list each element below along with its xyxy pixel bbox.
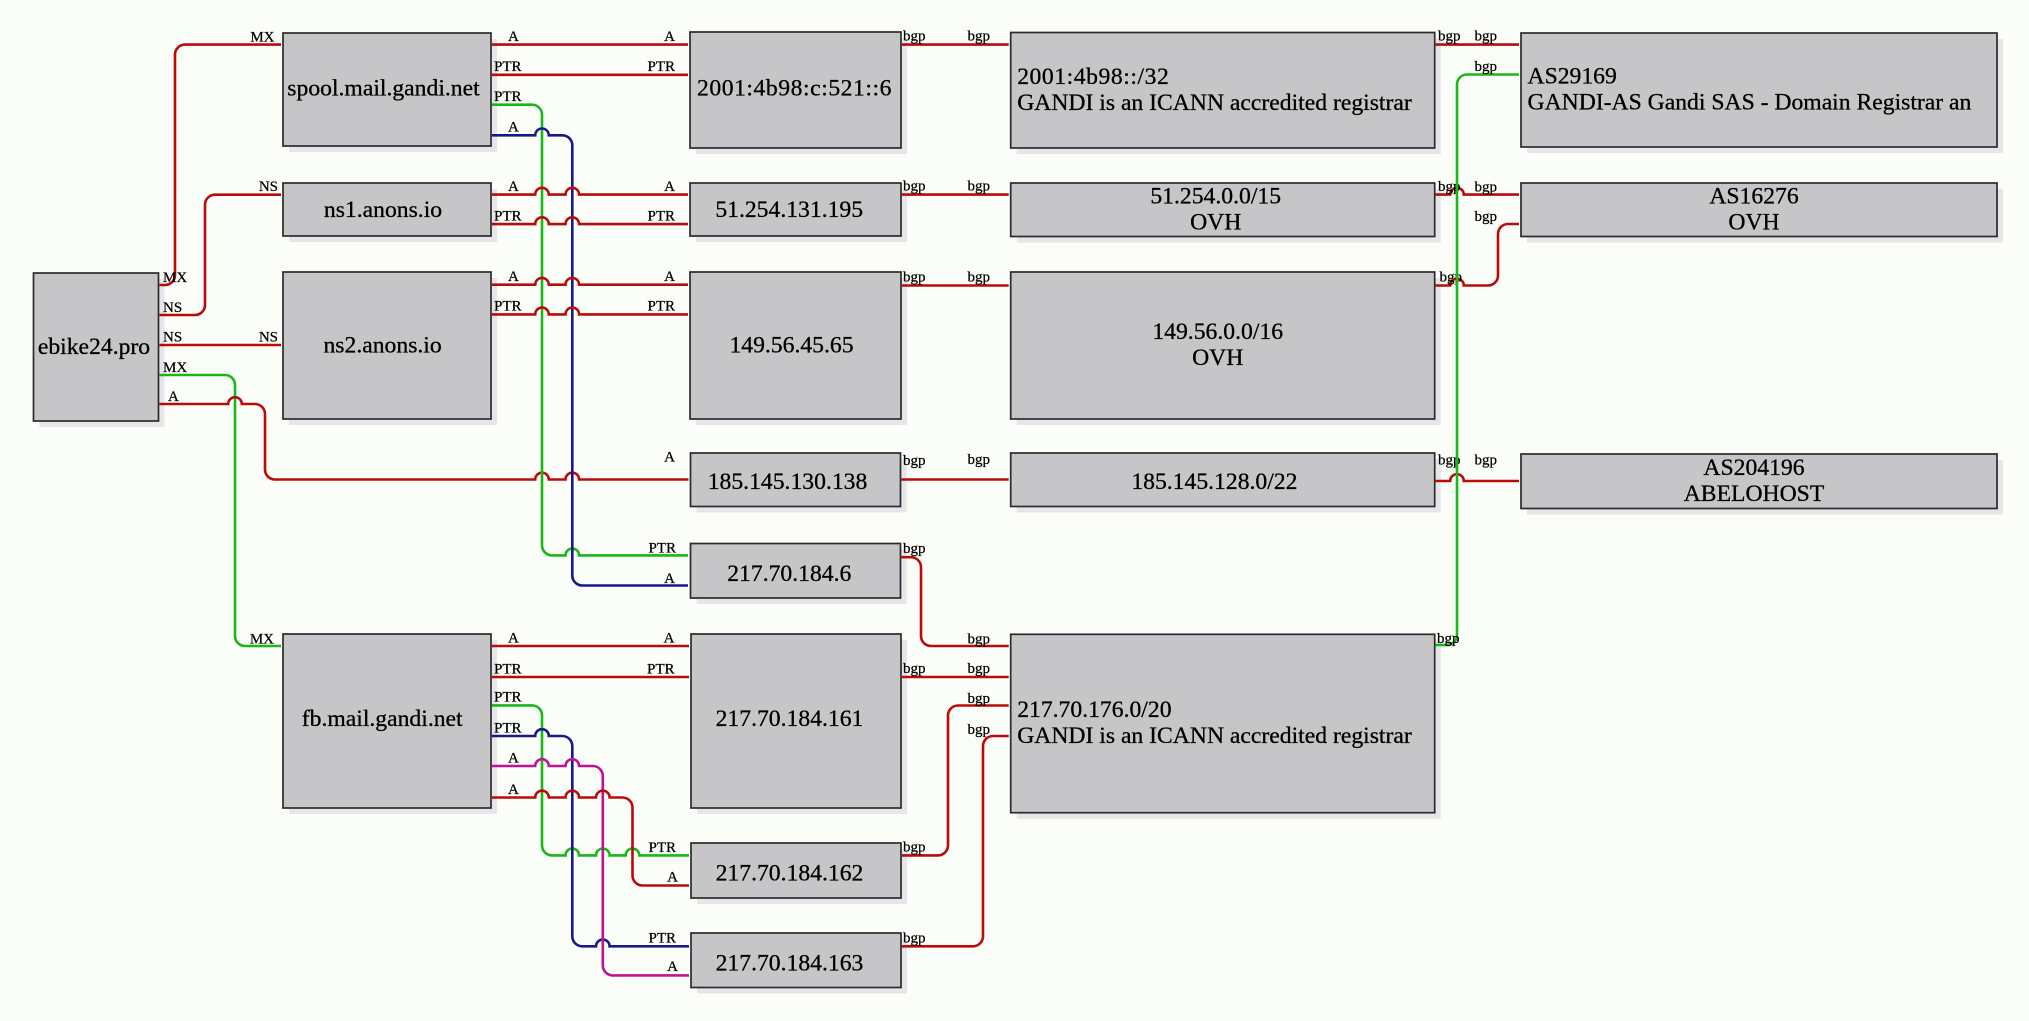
svg-text:PTR: PTR xyxy=(647,209,675,225)
svg-text:bgp: bgp xyxy=(1475,209,1498,225)
svg-text:A: A xyxy=(667,959,678,975)
wire A fb.mail.gandi.net->217.70.184.161 xyxy=(492,631,689,647)
node AS16276 xyxy=(1521,183,2003,243)
svg-text:51.254.0.0/15: 51.254.0.0/15 xyxy=(1150,183,1281,209)
wire bgp 2001:4b98:c:521::6->2001:4b98::/32 xyxy=(902,29,1009,45)
svg-text:217.70.176.0/20: 217.70.176.0/20 xyxy=(1017,697,1171,723)
svg-text:A: A xyxy=(664,450,675,466)
node 217.70.184.161 xyxy=(691,634,907,814)
svg-text:bgp: bgp xyxy=(968,631,991,647)
node net 2001:4b98::/32 xyxy=(1011,33,1441,155)
svg-text:PTR: PTR xyxy=(647,662,675,678)
wire bgp 51.254.0.0/15->AS16276 xyxy=(1436,179,1519,196)
svg-text:A: A xyxy=(664,631,675,647)
wire bgp 149.56.45.65->149.56.0.0/16 xyxy=(902,270,1009,286)
svg-text:bgp: bgp xyxy=(968,179,991,195)
svg-text:bgp: bgp xyxy=(968,661,991,677)
node ns2.anons.io xyxy=(283,272,497,425)
wire PTR fb.mail.gandi.net->217.70.184.161 xyxy=(492,662,689,678)
svg-text:ns2.anons.io: ns2.anons.io xyxy=(323,333,441,359)
wire bgp 217.70.184.6->217.70.176.0/20 xyxy=(902,541,1009,647)
wire bgp 217.70.176.0/20->AS29169 xyxy=(1436,59,1519,647)
svg-text:bgp: bgp xyxy=(903,930,926,946)
svg-text:217.70.184.162: 217.70.184.162 xyxy=(716,861,864,887)
svg-text:bgp: bgp xyxy=(968,452,991,468)
wire PTR spool.mail.gandi.net->2001:4b98:c:521::6 xyxy=(492,59,688,75)
wire PTR ns1.anons.io->51.254.131.195 xyxy=(492,209,688,225)
node ebike24.pro xyxy=(34,273,165,427)
svg-text:149.56.45.65: 149.56.45.65 xyxy=(729,333,853,359)
wire bgp 217.70.184.163->217.70.176.0/20 xyxy=(902,722,1009,946)
svg-text:A: A xyxy=(667,870,678,886)
svg-text:bgp: bgp xyxy=(903,661,926,677)
svg-text:A: A xyxy=(508,29,519,45)
svg-text:A: A xyxy=(508,631,519,647)
svg-text:A: A xyxy=(664,179,675,195)
svg-text:185.145.130.138: 185.145.130.138 xyxy=(708,469,868,495)
wire NS ebike24.pro->ns1.anons.io xyxy=(160,179,282,316)
wire bgp 149.56.0.0/16->AS16276 xyxy=(1436,209,1519,286)
svg-text:A: A xyxy=(664,269,675,285)
svg-text:bgp: bgp xyxy=(1437,631,1460,647)
svg-text:PTR: PTR xyxy=(494,721,522,737)
svg-text:fb.mail.gandi.net: fb.mail.gandi.net xyxy=(302,706,463,732)
svg-text:149.56.0.0/16: 149.56.0.0/16 xyxy=(1152,319,1283,345)
wire bgp 185.145.130.138->185.145.128.0/22 xyxy=(902,452,1009,480)
svg-text:MX: MX xyxy=(250,632,274,648)
svg-text:A: A xyxy=(508,782,519,798)
wire PTR ns2.anons.io->149.56.45.65 xyxy=(492,299,688,315)
svg-text:bgp: bgp xyxy=(903,541,926,557)
svg-text:51.254.131.195: 51.254.131.195 xyxy=(715,197,863,223)
svg-text:PTR: PTR xyxy=(494,89,522,105)
wire A spool.mail.gandi.net->217.70.184.6 xyxy=(492,120,688,588)
svg-text:MX: MX xyxy=(163,270,187,286)
svg-text:NS: NS xyxy=(163,330,182,346)
svg-text:2001:4b98:c:521::6: 2001:4b98:c:521::6 xyxy=(697,76,892,102)
svg-text:OVH: OVH xyxy=(1728,209,1779,235)
svg-text:A: A xyxy=(168,389,179,405)
svg-text:PTR: PTR xyxy=(494,209,522,225)
wire MX ebike24.pro->spool.mail.gandi.net xyxy=(160,30,282,287)
svg-text:PTR: PTR xyxy=(494,59,522,75)
svg-text:PTR: PTR xyxy=(648,840,676,856)
wire PTR fb.mail.gandi.net->217.70.184.162 xyxy=(492,690,689,857)
svg-text:GANDI is an ICANN accredited r: GANDI is an ICANN accredited registrar xyxy=(1017,90,1412,116)
svg-text:bgp: bgp xyxy=(968,722,991,738)
svg-text:GANDI is an ICANN accredited r: GANDI is an ICANN accredited registrar xyxy=(1017,723,1412,749)
svg-text:bgp: bgp xyxy=(903,29,926,45)
wire PTR spool.mail.gandi.net->217.70.184.6 xyxy=(492,89,688,557)
wire A ebike24.pro->185.145.130.138 xyxy=(160,389,689,480)
svg-text:217.70.184.161: 217.70.184.161 xyxy=(716,706,864,732)
node 185.145.130.138 xyxy=(691,453,907,513)
svg-text:bgp: bgp xyxy=(1438,29,1461,45)
svg-text:PTR: PTR xyxy=(494,662,522,678)
svg-text:ebike24.pro: ebike24.pro xyxy=(38,334,150,360)
svg-text:MX: MX xyxy=(250,30,274,46)
node spool.mail.gandi.net xyxy=(283,33,497,152)
wire A ns2.anons.io->149.56.45.65 xyxy=(492,269,688,285)
svg-text:NS: NS xyxy=(259,179,278,195)
svg-text:spool.mail.gandi.net: spool.mail.gandi.net xyxy=(287,76,480,102)
svg-text:bgp: bgp xyxy=(1440,270,1463,286)
svg-text:ABELOHOST: ABELOHOST xyxy=(1684,481,1825,507)
node 217.70.184.6 xyxy=(691,544,907,605)
svg-text:bgp: bgp xyxy=(968,691,991,707)
wire NS ebike24.pro->ns2.anons.io xyxy=(160,330,282,346)
svg-text:MX: MX xyxy=(163,360,187,376)
wire PTR fb.mail.gandi.net->217.70.184.163 xyxy=(492,721,689,947)
svg-text:A: A xyxy=(508,179,519,195)
node ns1.anons.io xyxy=(283,183,497,242)
svg-text:A: A xyxy=(508,120,519,136)
svg-text:A: A xyxy=(508,269,519,285)
wire A fb.mail.gandi.net->217.70.184.163 xyxy=(492,751,689,976)
node 217.70.184.163 xyxy=(691,933,907,994)
svg-text:217.70.184.6: 217.70.184.6 xyxy=(727,561,851,587)
svg-text:bgp: bgp xyxy=(1475,29,1498,45)
svg-text:GANDI-AS Gandi SAS - Domain Re: GANDI-AS Gandi SAS - Domain Registrar an xyxy=(1528,90,1972,116)
wire A ns1.anons.io->51.254.131.195 xyxy=(492,179,688,195)
svg-text:bgp: bgp xyxy=(968,270,991,286)
node 2001:4b98:c:521::6 xyxy=(690,32,907,154)
wire A fb.mail.gandi.net->217.70.184.162 xyxy=(492,782,689,886)
svg-text:185.145.128.0/22: 185.145.128.0/22 xyxy=(1131,469,1297,495)
node net 149.56.0.0/16 xyxy=(1011,272,1441,425)
svg-text:NS: NS xyxy=(259,330,278,346)
wire bgp 217.70.184.161->217.70.176.0/20 xyxy=(902,661,1009,677)
wire bgp 2001:4b98::/32->AS29169 xyxy=(1436,29,1519,45)
node net 217.70.176.0/20 xyxy=(1011,634,1441,818)
wire A spool.mail.gandi.net->2001:4b98:c:521::6 xyxy=(492,29,688,45)
wire bgp 51.254.131.195->51.254.0.0/15 xyxy=(902,179,1009,195)
svg-text:217.70.184.163: 217.70.184.163 xyxy=(716,951,864,977)
svg-text:A: A xyxy=(664,571,675,587)
svg-text:bgp: bgp xyxy=(1475,59,1498,75)
svg-text:bgp: bgp xyxy=(903,179,926,195)
svg-text:PTR: PTR xyxy=(647,299,675,315)
svg-text:NS: NS xyxy=(163,300,182,316)
svg-text:bgp: bgp xyxy=(903,270,926,286)
svg-text:2001:4b98::/32: 2001:4b98::/32 xyxy=(1017,64,1169,90)
svg-text:OVH: OVH xyxy=(1190,209,1241,235)
svg-text:PTR: PTR xyxy=(648,931,676,947)
wire bgp 217.70.184.162->217.70.176.0/20 xyxy=(902,691,1009,855)
node 51.254.131.195 xyxy=(690,183,907,242)
svg-text:ns1.anons.io: ns1.anons.io xyxy=(324,197,442,223)
svg-text:A: A xyxy=(508,751,519,767)
node net 185.145.128.0/22 xyxy=(1011,453,1441,513)
svg-text:bgp: bgp xyxy=(968,29,991,45)
svg-text:bgp: bgp xyxy=(1475,180,1498,196)
node 217.70.184.162 xyxy=(691,843,907,904)
svg-text:PTR: PTR xyxy=(648,541,676,557)
node AS29169 xyxy=(1521,33,2003,153)
svg-text:bgp: bgp xyxy=(903,453,926,469)
node fb.mail.gandi.net xyxy=(283,634,497,814)
svg-text:PTR: PTR xyxy=(494,690,522,706)
svg-text:OVH: OVH xyxy=(1192,345,1243,371)
wire bgp 185.145.128.0/22->AS204196 xyxy=(1436,453,1519,482)
svg-text:bgp: bgp xyxy=(903,839,926,855)
svg-text:A: A xyxy=(664,29,675,45)
svg-text:AS29169: AS29169 xyxy=(1528,64,1617,90)
wire MX ebike24.pro->fb.mail.gandi.net xyxy=(160,360,282,648)
svg-text:PTR: PTR xyxy=(494,299,522,315)
node net 51.254.0.0/15 xyxy=(1011,183,1441,243)
node 149.56.45.65 xyxy=(690,272,907,425)
svg-text:AS16276: AS16276 xyxy=(1709,183,1799,209)
svg-text:bgp: bgp xyxy=(1475,453,1498,469)
node AS204196 xyxy=(1521,454,2003,515)
svg-text:AS204196: AS204196 xyxy=(1703,455,1804,481)
svg-text:PTR: PTR xyxy=(647,59,675,75)
